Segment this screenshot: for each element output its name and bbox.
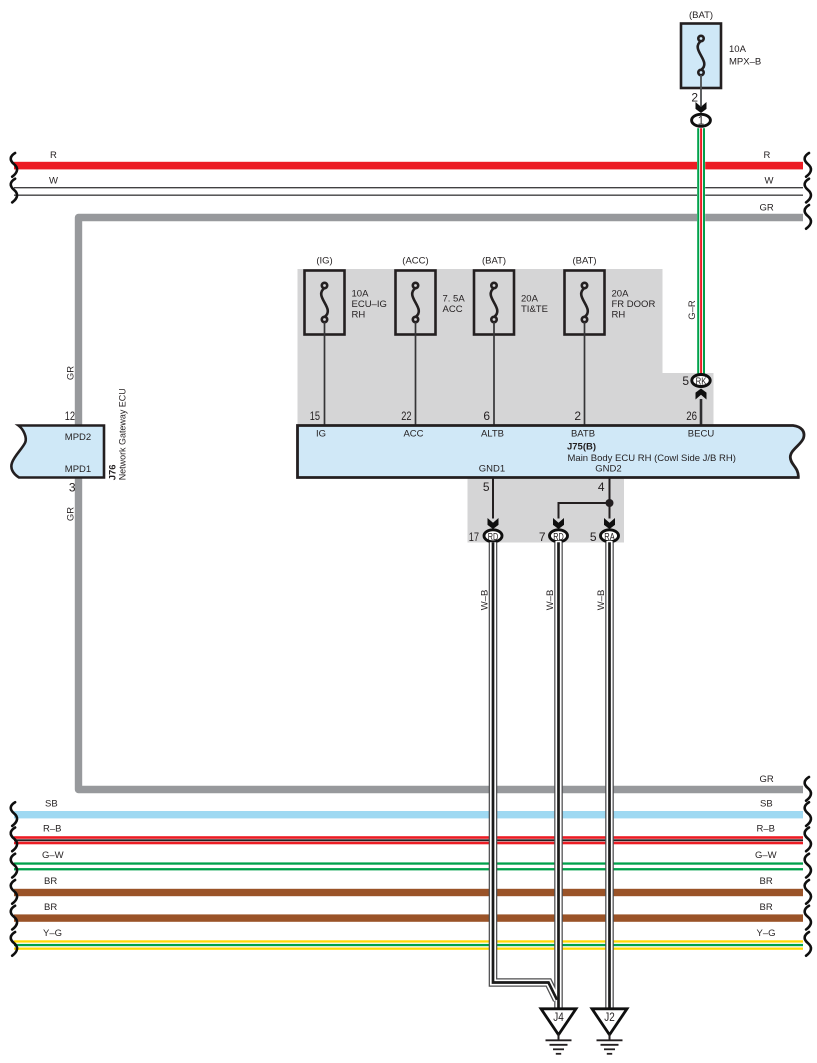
arrow down into connector 1 — [696, 102, 707, 113]
svg-text:15: 15 — [310, 409, 321, 423]
svg-text:20A: 20A — [612, 289, 630, 300]
ground J2 earth symbol — [597, 1034, 623, 1054]
svg-text:R–B: R–B — [757, 824, 775, 835]
svg-text:GND2: GND2 — [595, 464, 621, 475]
svg-text:BECU: BECU — [688, 429, 715, 440]
bus W (top, white wire with outlines) — [14, 187, 803, 189]
brace R-B left — [11, 828, 17, 852]
svg-text:GND1: GND1 — [479, 464, 505, 475]
svg-text:MPD1: MPD1 — [65, 464, 91, 475]
svg-text:22: 22 — [401, 409, 412, 423]
wire W-B 1 (black tracer) — [493, 542, 557, 1000]
fuse ACC element — [412, 283, 419, 322]
svg-text:(ACC): (ACC) — [402, 256, 428, 267]
wire fuse IG to pin 15 — [324, 322, 326, 426]
wire W-B 1 (white core) — [493, 542, 557, 1000]
svg-text:Network Gateway ECU: Network Gateway ECU — [118, 388, 129, 480]
svg-text:TI&TE: TI&TE — [521, 304, 548, 315]
wire fuse FR DOOR to pin 2 — [584, 322, 586, 426]
ground J2 triangle — [592, 1009, 627, 1035]
arrow down into RD 7 — [553, 518, 564, 529]
arrow up into RK — [696, 389, 707, 400]
svg-text:(BAT): (BAT) — [689, 10, 713, 21]
svg-text:5: 5 — [483, 480, 490, 494]
fuse ECU-IG body — [305, 271, 345, 335]
bus R (top) — [14, 162, 803, 170]
svg-text:MPX–B: MPX–B — [729, 57, 761, 68]
ECU block J76 Network Gateway ECU — [11, 426, 104, 478]
svg-text:3: 3 — [69, 481, 76, 495]
brace W left — [11, 179, 17, 203]
bus Y-G — [14, 940, 803, 942]
wire W-B 2 (outline) — [554, 542, 563, 1009]
brace BR1 right — [805, 880, 811, 904]
svg-text:J4: J4 — [553, 1012, 564, 1024]
wire GND1 pin 5 — [492, 477, 494, 519]
wire fuse ACC to pin 22 — [415, 322, 417, 426]
svg-text:GR: GR — [65, 507, 76, 521]
svg-text:20A: 20A — [521, 294, 539, 305]
svg-text:2: 2 — [574, 409, 581, 423]
svg-text:GR: GR — [65, 366, 76, 380]
svg-text:BR: BR — [44, 876, 57, 887]
connector circle 1 — [692, 114, 711, 126]
svg-text:17: 17 — [469, 530, 480, 544]
gray shield block upper (junction block J/B area) — [298, 269, 714, 426]
fuse ACC body — [396, 271, 436, 335]
svg-text:10A: 10A — [729, 44, 747, 55]
brace BR1 left — [11, 880, 17, 904]
svg-text:BATB: BATB — [571, 429, 595, 440]
svg-text:1: 1 — [698, 115, 704, 127]
svg-text:G–W: G–W — [42, 850, 64, 861]
svg-text:4: 4 — [598, 480, 605, 494]
fuse FR DOOR body — [565, 271, 605, 335]
connector RD 7 — [550, 530, 568, 542]
svg-text:W–B: W–B — [479, 590, 490, 611]
connector RD 17 — [484, 530, 502, 542]
svg-text:RK: RK — [696, 375, 707, 387]
svg-text:(BAT): (BAT) — [572, 256, 596, 267]
wire W-B 1 (outline) — [493, 542, 557, 1000]
brace BR2 right — [805, 906, 811, 930]
bus SB — [14, 811, 803, 818]
svg-text:GR: GR — [760, 203, 774, 214]
svg-text:W–B: W–B — [545, 590, 556, 611]
brace SB right — [805, 802, 811, 826]
arrow down into RD 17 — [488, 518, 499, 529]
svg-text:R: R — [50, 150, 57, 161]
svg-text:FR DOOR: FR DOOR — [612, 299, 656, 310]
bus BR 1 — [14, 889, 803, 896]
wire W-B 3 (black tracer) — [608, 542, 611, 1009]
svg-text:10A: 10A — [352, 289, 370, 300]
svg-text:2: 2 — [691, 91, 698, 105]
wire W-B 2 (black tracer) — [557, 542, 560, 1009]
svg-text:5: 5 — [682, 374, 689, 388]
svg-text:12: 12 — [65, 409, 76, 423]
arrow down into RA 5 — [604, 518, 615, 529]
svg-text:Y–G: Y–G — [757, 928, 776, 939]
svg-text:26: 26 — [686, 409, 697, 423]
svg-text:J2: J2 — [604, 1012, 615, 1024]
wire GR main (top bus, left drop, bottom bus) — [79, 218, 804, 790]
wire GND2 pin 4 — [609, 477, 611, 519]
brace GR right top — [805, 205, 811, 229]
svg-text:ALTB: ALTB — [481, 429, 504, 440]
svg-text:ACC: ACC — [403, 429, 423, 440]
brace R left — [11, 153, 17, 177]
junction dot GND2 branch — [606, 499, 614, 507]
ground J4 triangle — [541, 1009, 576, 1035]
fuse FR DOOR element — [581, 283, 588, 322]
svg-text:GR: GR — [760, 774, 774, 785]
brace Y-G left — [11, 932, 17, 956]
fuse TI&TE element — [491, 283, 498, 322]
wire branch to RD 7 — [559, 503, 610, 519]
brace R-B right — [805, 828, 811, 852]
svg-text:BR: BR — [760, 902, 773, 913]
brace SB left — [11, 802, 17, 826]
brace G-W left — [11, 854, 17, 878]
svg-text:MPD2: MPD2 — [65, 432, 91, 443]
svg-text:RD: RD — [488, 531, 499, 543]
ground J4 earth symbol — [546, 1034, 572, 1054]
svg-text:7: 7 — [539, 530, 546, 544]
svg-text:(BAT): (BAT) — [482, 256, 506, 267]
svg-text:SB: SB — [760, 799, 773, 810]
brace GR right bottom — [805, 777, 811, 801]
wire W-B 2 (white core) — [555, 541, 561, 1010]
svg-text:BR: BR — [760, 876, 773, 887]
brace W right — [805, 179, 811, 203]
svg-text:R: R — [764, 150, 771, 161]
ECU block J75(B) Main Body ECU RH — [298, 426, 805, 478]
svg-text:6: 6 — [483, 409, 490, 423]
bus R-B — [14, 836, 803, 839]
svg-text:Y–G: Y–G — [43, 928, 62, 939]
brace G-W right — [805, 854, 811, 878]
svg-text:RH: RH — [612, 310, 626, 321]
wire fuse to connector 1 — [700, 75, 702, 106]
svg-text:W: W — [765, 176, 774, 187]
wire fuse TI&TE to pin 6 — [493, 322, 495, 426]
wire pin 26 to RK — [700, 399, 703, 426]
brace Y-G right — [805, 932, 811, 956]
fuse ECU-IG element — [321, 283, 328, 322]
svg-text:Main Body ECU RH (Cowl Side J/: Main Body ECU RH (Cowl Side J/B RH) — [568, 453, 736, 464]
svg-text:(IG): (IG) — [316, 256, 332, 267]
svg-text:ECU–IG: ECU–IG — [352, 299, 387, 310]
svg-text:7. 5A: 7. 5A — [443, 294, 466, 305]
brace R right — [805, 153, 811, 177]
svg-text:R–B: R–B — [43, 824, 61, 835]
wire G-R vertical — [697, 128, 705, 374]
svg-text:BR: BR — [44, 902, 57, 913]
wire W-B 3 (white core) — [606, 541, 612, 1010]
svg-text:W: W — [49, 176, 58, 187]
svg-text:ACC: ACC — [443, 304, 463, 315]
fuse TI&TE body — [474, 271, 514, 335]
svg-text:5: 5 — [590, 530, 597, 544]
fuse MPX-B body — [681, 24, 721, 89]
svg-text:G–W: G–W — [755, 850, 777, 861]
svg-text:W–B: W–B — [596, 590, 607, 611]
svg-text:SB: SB — [45, 799, 58, 810]
connector RK — [692, 375, 710, 387]
bus G-W — [14, 862, 803, 864]
gray shield block lower (GND area) — [468, 476, 625, 543]
bus BR 2 — [14, 914, 803, 921]
brace BR2 left — [11, 906, 17, 930]
svg-text:J75(B): J75(B) — [567, 442, 596, 453]
connector RA 5 — [601, 530, 619, 542]
svg-text:RH: RH — [352, 310, 366, 321]
wire W-B 3 (outline) — [605, 542, 614, 1009]
continuation braces — [11, 153, 811, 956]
svg-text:G–R: G–R — [687, 300, 698, 320]
fuse MPX-B element — [698, 36, 705, 75]
svg-text:IG: IG — [316, 429, 326, 440]
